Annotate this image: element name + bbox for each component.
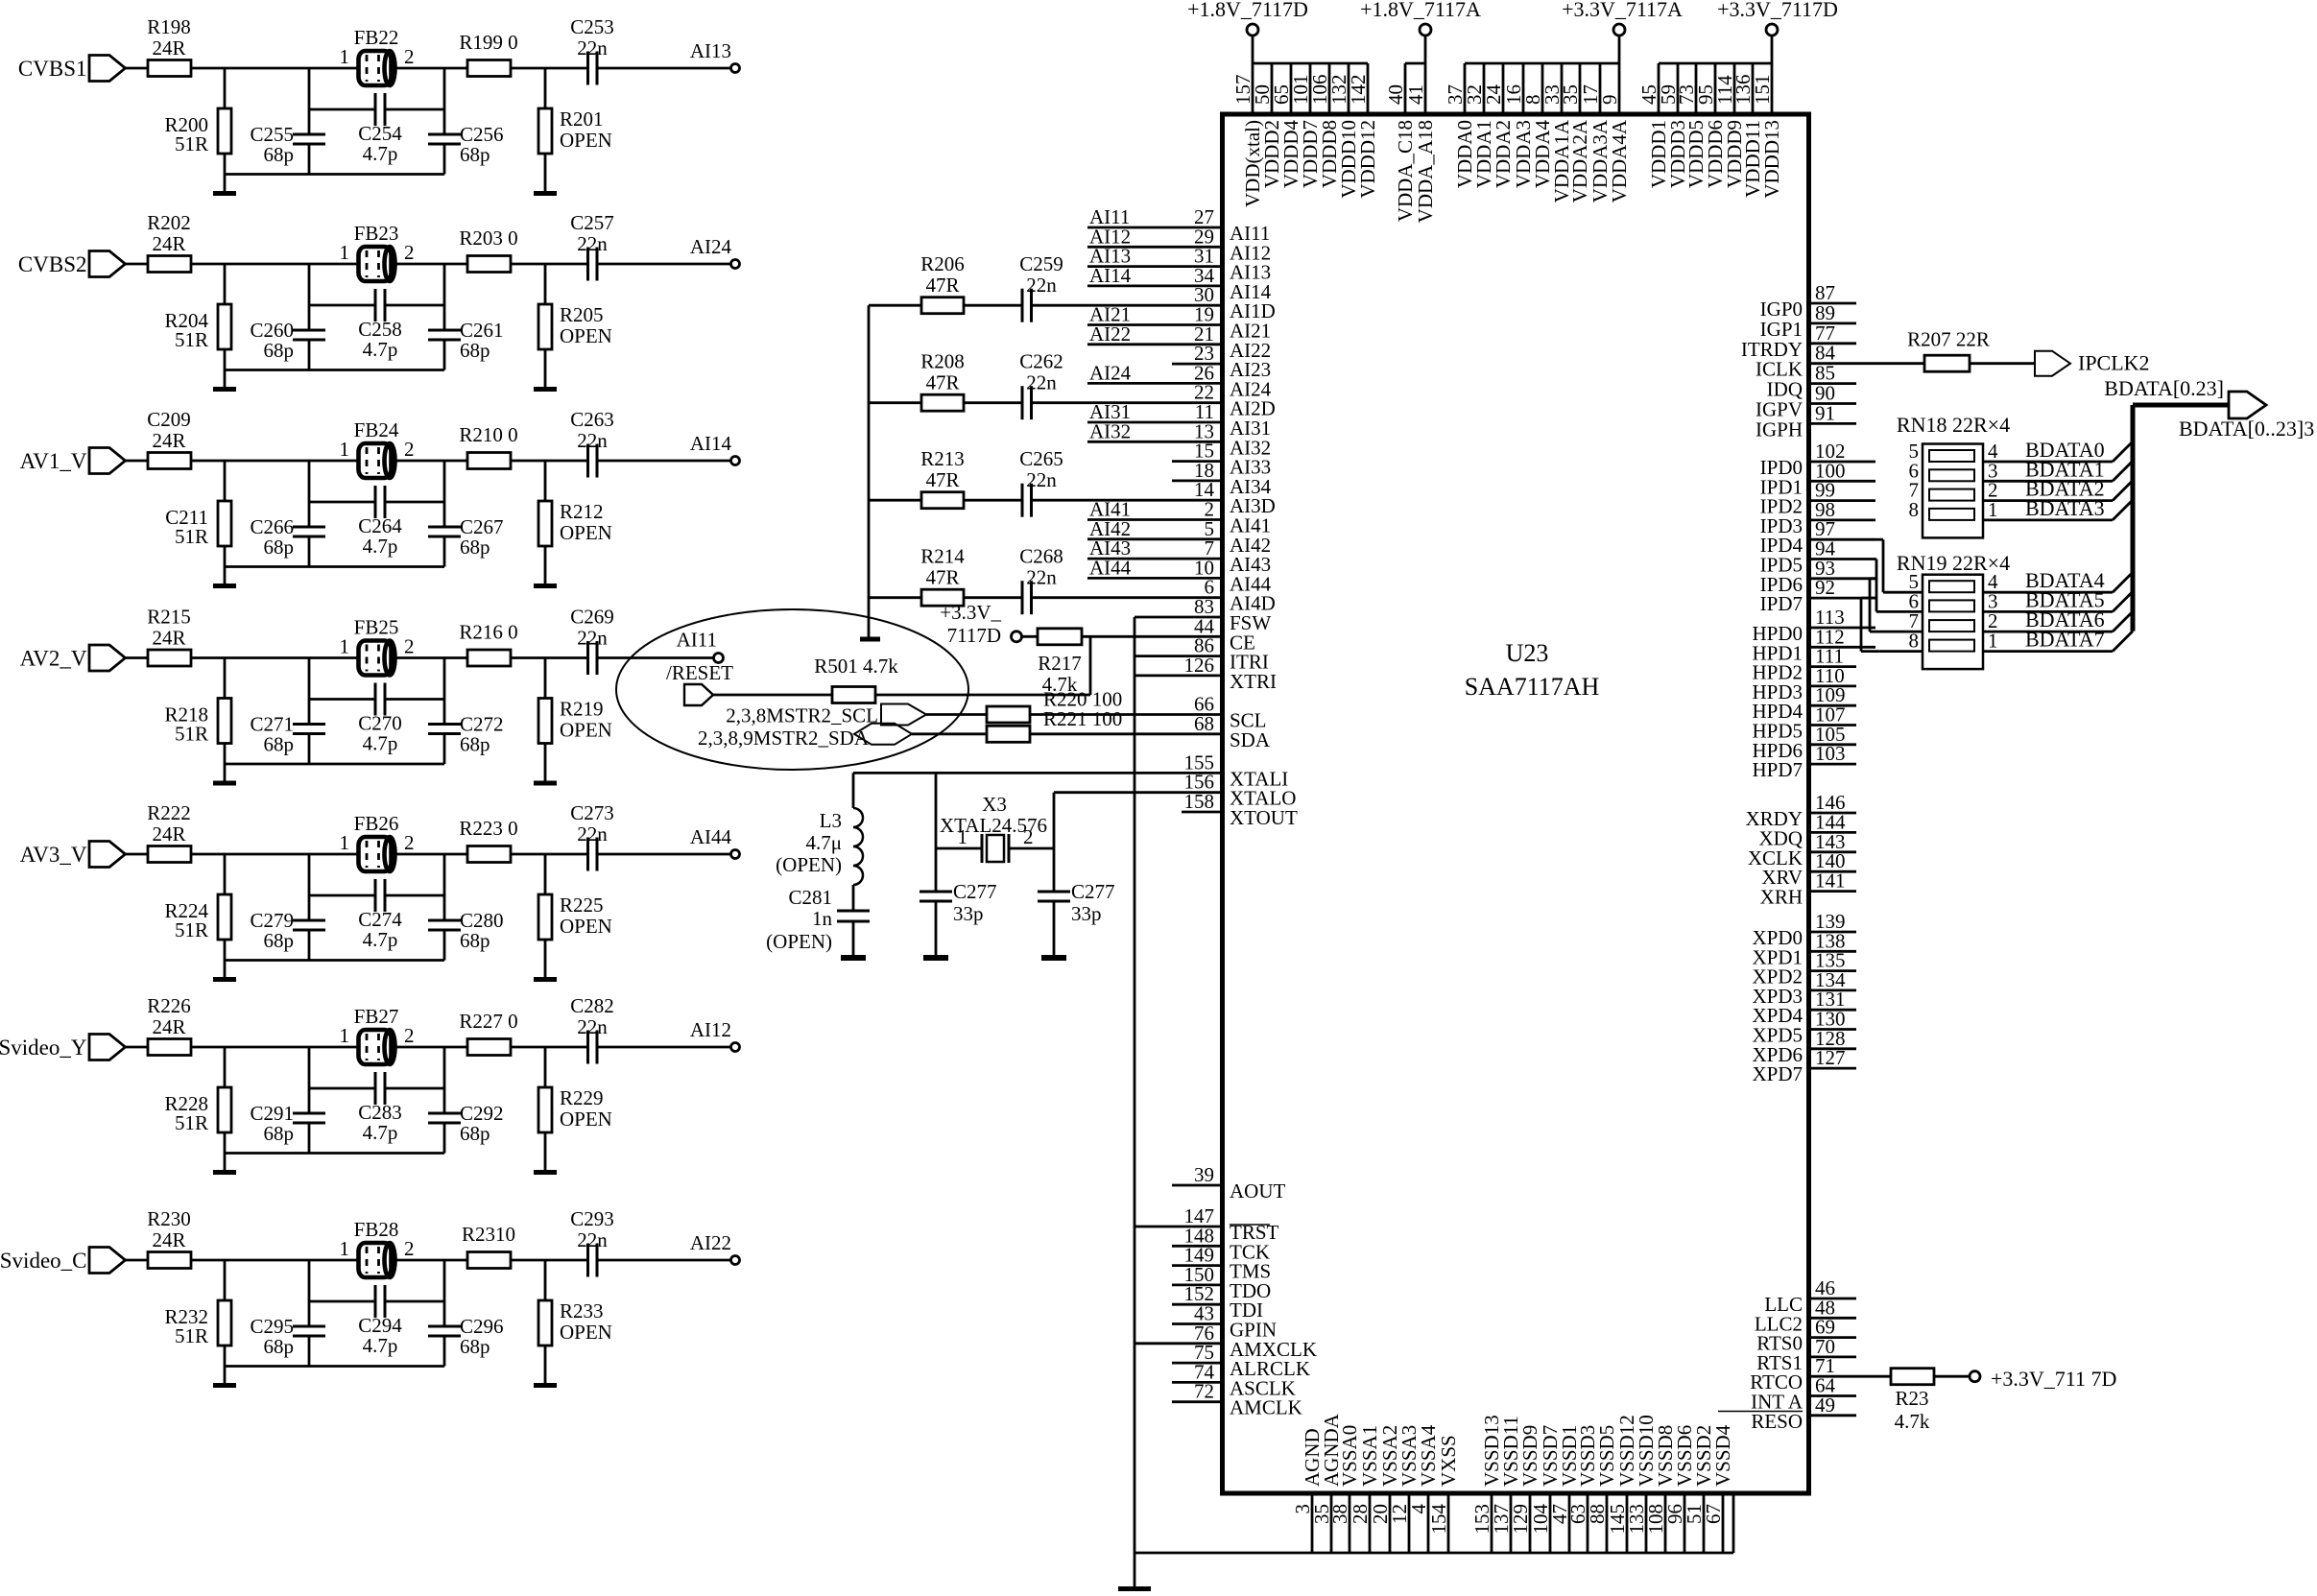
svg-text:68p: 68p bbox=[264, 1335, 295, 1358]
svg-text:+1.8V_7117A: +1.8V_7117A bbox=[1360, 0, 1481, 21]
svg-text:R23: R23 bbox=[1895, 1387, 1928, 1410]
svg-text:/RESET: /RESET bbox=[666, 661, 733, 684]
svg-text:OPEN: OPEN bbox=[560, 915, 612, 938]
svg-text:SDA: SDA bbox=[1230, 728, 1271, 751]
svg-text:22n: 22n bbox=[577, 429, 608, 452]
svg-text:C293: C293 bbox=[570, 1207, 614, 1230]
svg-text:1: 1 bbox=[340, 1024, 350, 1047]
svg-text:4.7p: 4.7p bbox=[363, 1334, 398, 1357]
svg-text:C269: C269 bbox=[570, 606, 614, 629]
svg-text:7117D: 7117D bbox=[947, 624, 1001, 647]
svg-text:C209: C209 bbox=[147, 408, 191, 431]
svg-text:XTRI: XTRI bbox=[1230, 670, 1277, 693]
svg-text:XRH: XRH bbox=[1760, 886, 1803, 909]
svg-text:XTOUT: XTOUT bbox=[1230, 806, 1298, 829]
svg-text:AV1_V: AV1_V bbox=[20, 449, 87, 473]
svg-text:C259: C259 bbox=[1019, 252, 1063, 275]
svg-text:R199 0: R199 0 bbox=[459, 31, 517, 54]
svg-text:OPEN: OPEN bbox=[560, 129, 612, 152]
svg-text:+3.3V_: +3.3V_ bbox=[940, 601, 1001, 624]
svg-text:C282: C282 bbox=[570, 994, 614, 1017]
svg-text:51R: 51R bbox=[175, 1111, 208, 1134]
svg-text:OPEN: OPEN bbox=[560, 1108, 612, 1131]
svg-text:154: 154 bbox=[1427, 1504, 1450, 1535]
svg-text:FB24: FB24 bbox=[354, 418, 399, 441]
svg-text:(OPEN): (OPEN) bbox=[776, 853, 842, 876]
svg-text:51R: 51R bbox=[175, 132, 208, 155]
svg-text:R215: R215 bbox=[147, 606, 191, 629]
svg-text:24R: 24R bbox=[152, 36, 185, 60]
svg-text:4.7p: 4.7p bbox=[363, 338, 398, 361]
svg-text:C281: C281 bbox=[788, 886, 832, 909]
svg-text:R226: R226 bbox=[147, 994, 191, 1017]
svg-text:AI32: AI32 bbox=[1089, 419, 1131, 442]
svg-text:AV3_V: AV3_V bbox=[20, 843, 87, 867]
svg-text:2: 2 bbox=[404, 45, 415, 68]
svg-text:FB23: FB23 bbox=[354, 222, 399, 245]
svg-text:68p: 68p bbox=[264, 339, 295, 362]
svg-text:C257: C257 bbox=[570, 211, 614, 234]
svg-text:U23: U23 bbox=[1506, 639, 1549, 667]
svg-text:(OPEN): (OPEN) bbox=[766, 930, 832, 953]
svg-text:FB25: FB25 bbox=[354, 616, 399, 639]
svg-text:22n: 22n bbox=[577, 1228, 608, 1251]
svg-text:AI24: AI24 bbox=[1089, 361, 1132, 384]
svg-text:68p: 68p bbox=[264, 733, 295, 756]
svg-text:R221 100: R221 100 bbox=[1043, 707, 1122, 730]
svg-text:+3.3V_7117D: +3.3V_7117D bbox=[1717, 0, 1838, 21]
svg-text:VDDD13: VDDD13 bbox=[1760, 120, 1783, 199]
svg-text:142: 142 bbox=[1347, 75, 1370, 106]
svg-text:IPCLK2: IPCLK2 bbox=[2078, 351, 2150, 375]
svg-text:24R: 24R bbox=[152, 627, 185, 650]
svg-text:FB27: FB27 bbox=[354, 1005, 399, 1028]
svg-text:R216 0: R216 0 bbox=[459, 621, 517, 644]
svg-text:4.7p: 4.7p bbox=[363, 535, 398, 558]
svg-text:8: 8 bbox=[1909, 498, 1920, 521]
svg-text:4.7p: 4.7p bbox=[363, 732, 398, 755]
svg-text:Svideo_C: Svideo_C bbox=[0, 1249, 87, 1273]
svg-text:+3.3V_711 7D: +3.3V_711 7D bbox=[1991, 1367, 2116, 1391]
svg-text:R198: R198 bbox=[147, 15, 191, 38]
svg-text:51R: 51R bbox=[175, 525, 208, 548]
svg-text:22n: 22n bbox=[577, 822, 608, 846]
svg-text:XPD7: XPD7 bbox=[1752, 1062, 1803, 1085]
svg-text:FB22: FB22 bbox=[354, 26, 399, 49]
svg-text:92: 92 bbox=[1815, 576, 1835, 599]
svg-text:1: 1 bbox=[1988, 498, 1998, 521]
svg-text:R227 0: R227 0 bbox=[459, 1010, 517, 1033]
svg-text:1: 1 bbox=[340, 1237, 350, 1260]
svg-text:68p: 68p bbox=[460, 143, 490, 166]
svg-text:2: 2 bbox=[404, 438, 415, 461]
svg-text:2: 2 bbox=[404, 635, 415, 658]
svg-text:126: 126 bbox=[1184, 654, 1215, 677]
svg-text:OPEN: OPEN bbox=[560, 324, 612, 347]
svg-text:R207 22R: R207 22R bbox=[1907, 328, 1990, 351]
svg-text:68p: 68p bbox=[460, 733, 490, 756]
svg-text:R217: R217 bbox=[1038, 652, 1082, 675]
svg-text:4.7k: 4.7k bbox=[1895, 1410, 1930, 1433]
svg-text:R225: R225 bbox=[560, 893, 604, 917]
svg-text:68p: 68p bbox=[460, 929, 490, 952]
svg-text:C268: C268 bbox=[1019, 545, 1063, 568]
svg-text:2: 2 bbox=[404, 1237, 415, 1260]
svg-text:AI22: AI22 bbox=[690, 1231, 731, 1254]
svg-text:68p: 68p bbox=[264, 929, 295, 952]
svg-text:AI14: AI14 bbox=[1089, 264, 1132, 287]
svg-text:1: 1 bbox=[340, 635, 350, 658]
svg-text:9: 9 bbox=[1598, 95, 1621, 106]
svg-text:OPEN: OPEN bbox=[560, 719, 612, 742]
svg-text:BDATA7: BDATA7 bbox=[2025, 628, 2105, 652]
svg-text:C265: C265 bbox=[1019, 447, 1063, 470]
svg-text:33p: 33p bbox=[953, 902, 984, 925]
svg-text:68p: 68p bbox=[264, 143, 295, 166]
svg-text:24R: 24R bbox=[152, 1015, 185, 1038]
svg-text:AI24: AI24 bbox=[690, 235, 732, 258]
svg-text:BDATA[0..23]3: BDATA[0..23]3 bbox=[2179, 417, 2314, 441]
svg-text:R201: R201 bbox=[560, 107, 604, 131]
svg-text:R213: R213 bbox=[920, 447, 965, 470]
svg-text:R501 4.7k: R501 4.7k bbox=[814, 655, 898, 678]
svg-text:AOUT: AOUT bbox=[1230, 1179, 1285, 1203]
svg-text:22n: 22n bbox=[1026, 566, 1057, 589]
svg-text:2,3,8,9MSTR2_SDA: 2,3,8,9MSTR2_SDA bbox=[698, 727, 870, 750]
svg-text:IGPH: IGPH bbox=[1756, 417, 1803, 441]
svg-text:22n: 22n bbox=[577, 627, 608, 650]
svg-text:BDATA[0.23]: BDATA[0.23] bbox=[2104, 376, 2224, 400]
svg-text:+1.8V_7117D: +1.8V_7117D bbox=[1187, 0, 1308, 21]
svg-text:47R: 47R bbox=[925, 566, 959, 589]
svg-text:68p: 68p bbox=[460, 1335, 490, 1358]
svg-text:72: 72 bbox=[1194, 1380, 1214, 1403]
svg-text:X3: X3 bbox=[982, 793, 1007, 816]
svg-text:24R: 24R bbox=[152, 429, 185, 452]
svg-text:R2310: R2310 bbox=[462, 1223, 515, 1246]
svg-text:127: 127 bbox=[1815, 1046, 1846, 1069]
svg-text:24R: 24R bbox=[152, 232, 185, 255]
svg-text:22n: 22n bbox=[1026, 468, 1057, 491]
svg-text:AI12: AI12 bbox=[690, 1018, 731, 1041]
svg-text:51R: 51R bbox=[175, 1324, 208, 1347]
svg-text:51R: 51R bbox=[175, 723, 208, 746]
svg-text:4.7p: 4.7p bbox=[363, 928, 398, 951]
svg-text:OPEN: OPEN bbox=[560, 521, 612, 544]
svg-text:CVBS1: CVBS1 bbox=[18, 57, 87, 81]
svg-text:47R: 47R bbox=[925, 274, 959, 297]
svg-text:AI14: AI14 bbox=[690, 432, 732, 455]
svg-text:R212: R212 bbox=[560, 500, 604, 523]
svg-text:AI44: AI44 bbox=[690, 825, 732, 848]
svg-text:FB26: FB26 bbox=[354, 812, 399, 835]
svg-text:1: 1 bbox=[958, 825, 968, 848]
svg-text:AI22: AI22 bbox=[1089, 322, 1131, 345]
svg-text:22n: 22n bbox=[577, 232, 608, 255]
svg-text:+3.3V_7117A: +3.3V_7117A bbox=[1562, 0, 1683, 21]
svg-text:39: 39 bbox=[1194, 1163, 1214, 1186]
svg-text:2,3,8MSTR2_SCL: 2,3,8MSTR2_SCL bbox=[726, 704, 878, 727]
svg-text:VDDA_A18: VDDA_A18 bbox=[1414, 120, 1437, 223]
svg-text:1: 1 bbox=[340, 831, 350, 854]
svg-text:1: 1 bbox=[340, 438, 350, 461]
svg-text:L3: L3 bbox=[820, 809, 842, 832]
svg-text:4.7p: 4.7p bbox=[363, 142, 398, 165]
svg-text:1n: 1n bbox=[812, 907, 833, 930]
svg-text:49: 49 bbox=[1815, 1394, 1835, 1417]
svg-text:R214: R214 bbox=[920, 545, 965, 568]
svg-text:68p: 68p bbox=[460, 339, 490, 362]
svg-text:FB28: FB28 bbox=[354, 1218, 399, 1241]
svg-text:4.7μ: 4.7μ bbox=[805, 831, 842, 854]
svg-text:R205: R205 bbox=[560, 303, 604, 326]
svg-text:R233: R233 bbox=[560, 1299, 604, 1322]
svg-text:51R: 51R bbox=[175, 328, 208, 351]
svg-text:103: 103 bbox=[1815, 742, 1846, 765]
svg-text:R203 0: R203 0 bbox=[459, 226, 517, 250]
svg-text:68p: 68p bbox=[460, 1122, 490, 1145]
svg-text:33p: 33p bbox=[1071, 902, 1102, 925]
svg-text:VXSS: VXSS bbox=[1437, 1435, 1460, 1487]
svg-text:VDDA4A: VDDA4A bbox=[1608, 119, 1631, 202]
svg-text:VSSD4: VSSD4 bbox=[1711, 1424, 1734, 1487]
svg-text:R223 0: R223 0 bbox=[459, 817, 517, 840]
svg-text:22n: 22n bbox=[577, 1015, 608, 1038]
svg-text:1: 1 bbox=[340, 45, 350, 68]
svg-text:R208: R208 bbox=[920, 350, 965, 373]
svg-text:R202: R202 bbox=[147, 211, 191, 234]
svg-text:BDATA3: BDATA3 bbox=[2025, 496, 2105, 520]
svg-text:HPD7: HPD7 bbox=[1752, 758, 1803, 781]
svg-text:IPD7: IPD7 bbox=[1760, 592, 1803, 615]
svg-text:22n: 22n bbox=[1026, 274, 1057, 297]
svg-text:AI44: AI44 bbox=[1089, 556, 1132, 579]
svg-text:AMCLK: AMCLK bbox=[1230, 1396, 1302, 1419]
svg-text:24R: 24R bbox=[152, 1228, 185, 1251]
svg-text:68p: 68p bbox=[460, 536, 490, 559]
svg-text:VDDD12: VDDD12 bbox=[1356, 120, 1379, 199]
svg-text:4.7p: 4.7p bbox=[363, 1121, 398, 1144]
svg-text:R230: R230 bbox=[147, 1207, 191, 1230]
svg-text:C273: C273 bbox=[570, 801, 614, 824]
svg-text:47R: 47R bbox=[925, 468, 959, 491]
svg-text:RN18 22R×4: RN18 22R×4 bbox=[1897, 413, 2010, 437]
svg-text:AV2_V: AV2_V bbox=[20, 647, 87, 671]
svg-text:C277: C277 bbox=[1071, 880, 1115, 903]
svg-text:AI13: AI13 bbox=[690, 39, 731, 62]
svg-text:RESO: RESO bbox=[1751, 1410, 1803, 1433]
svg-text:R222: R222 bbox=[147, 801, 191, 824]
svg-text:68p: 68p bbox=[264, 536, 295, 559]
svg-text:68p: 68p bbox=[264, 1122, 295, 1145]
svg-text:91: 91 bbox=[1815, 401, 1835, 424]
svg-text:C253: C253 bbox=[570, 15, 614, 38]
svg-text:Svideo_Y: Svideo_Y bbox=[0, 1036, 87, 1060]
svg-text:24R: 24R bbox=[152, 822, 185, 846]
svg-text:R210 0: R210 0 bbox=[459, 423, 517, 446]
svg-text:2: 2 bbox=[404, 1024, 415, 1047]
svg-text:41: 41 bbox=[1404, 84, 1427, 105]
svg-text:22n: 22n bbox=[1026, 371, 1057, 394]
svg-text:C263: C263 bbox=[570, 408, 614, 431]
svg-text:47R: 47R bbox=[925, 371, 959, 394]
svg-text:67: 67 bbox=[1702, 1504, 1725, 1524]
svg-text:CVBS2: CVBS2 bbox=[18, 252, 87, 276]
svg-text:2: 2 bbox=[404, 831, 415, 854]
svg-text:1: 1 bbox=[340, 241, 350, 264]
svg-text:22n: 22n bbox=[577, 36, 608, 60]
svg-text:R219: R219 bbox=[560, 698, 604, 721]
svg-text:C262: C262 bbox=[1019, 350, 1063, 373]
svg-text:2: 2 bbox=[404, 241, 415, 264]
svg-text:1: 1 bbox=[1988, 630, 1998, 653]
svg-text:SAA7117AH: SAA7117AH bbox=[1465, 673, 1600, 701]
svg-text:141: 141 bbox=[1815, 869, 1846, 893]
svg-text:R229: R229 bbox=[560, 1086, 604, 1109]
svg-text:2: 2 bbox=[1023, 825, 1034, 848]
svg-text:R206: R206 bbox=[920, 252, 965, 275]
svg-text:AI11: AI11 bbox=[677, 629, 717, 652]
svg-text:151: 151 bbox=[1751, 75, 1774, 106]
svg-text:OPEN: OPEN bbox=[560, 1321, 612, 1344]
svg-text:C277: C277 bbox=[953, 880, 997, 903]
svg-text:51R: 51R bbox=[175, 918, 208, 941]
